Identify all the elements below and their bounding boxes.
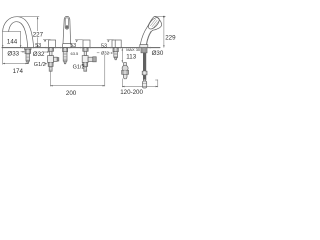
svg-text:G1/2: G1/2 [73, 64, 85, 70]
svg-text:G1/2: G1/2 [34, 62, 46, 68]
svg-text:113: 113 [126, 53, 136, 60]
svg-text:144: 144 [7, 38, 18, 45]
svg-text:Ø32: Ø32 [101, 51, 110, 56]
svg-text:227: 227 [33, 32, 44, 39]
svg-text:63.5: 63.5 [71, 51, 80, 56]
svg-text:200: 200 [66, 90, 77, 97]
svg-text:229: 229 [165, 34, 176, 41]
svg-text:53: 53 [101, 43, 107, 49]
svg-text:53: 53 [70, 43, 76, 49]
svg-text:174: 174 [13, 68, 24, 75]
svg-text:MAX 30: MAX 30 [126, 47, 141, 52]
svg-text:53: 53 [35, 43, 41, 49]
svg-text:Ø30: Ø30 [152, 50, 164, 57]
svg-text:120-200: 120-200 [120, 89, 143, 96]
svg-text:Ø32: Ø32 [33, 51, 45, 58]
svg-text:Ø33: Ø33 [7, 50, 19, 57]
